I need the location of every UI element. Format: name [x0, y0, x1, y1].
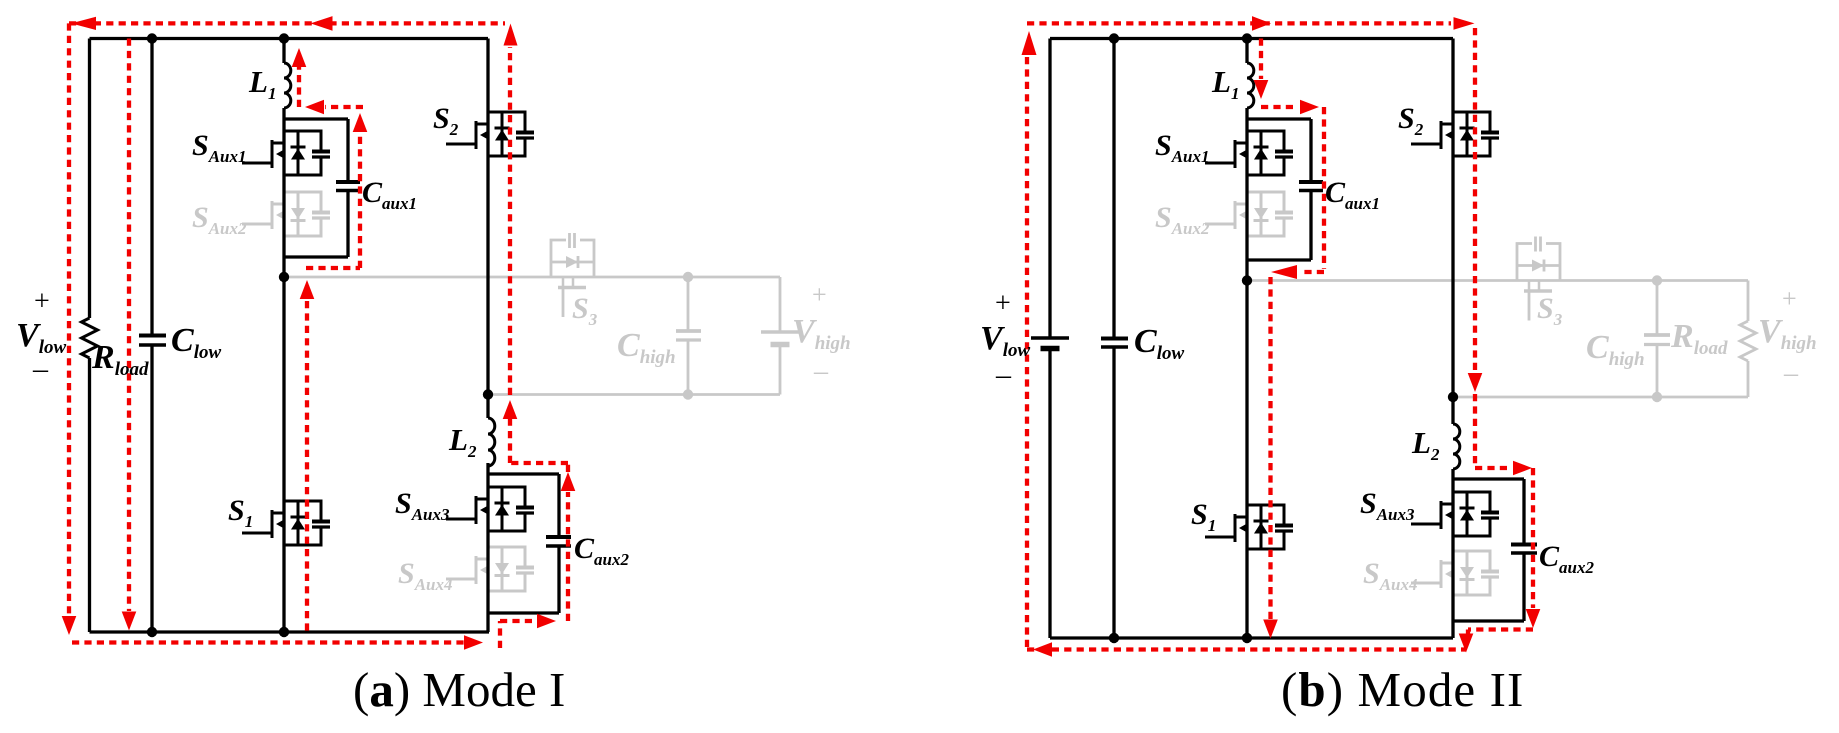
svg-text:+: + [1782, 284, 1797, 313]
svg-text:(a) Mode I: (a) Mode I [353, 662, 565, 717]
svg-text:–: – [32, 352, 49, 385]
svg-text:–: – [813, 356, 829, 387]
svg-text:(b) Mode II: (b) Mode II [1281, 662, 1524, 717]
svg-text:–: – [995, 358, 1012, 391]
svg-text:–: – [1783, 358, 1799, 389]
svg-text:+: + [34, 286, 50, 317]
svg-text:+: + [812, 280, 827, 309]
svg-text:+: + [995, 288, 1011, 319]
